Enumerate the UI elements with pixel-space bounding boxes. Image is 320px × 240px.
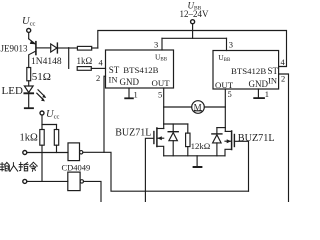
MOSFET Q2 BUZ71L (left) bbox=[145, 128, 163, 202]
wire U2 pin3 to bus bbox=[226, 38, 228, 50]
svg-text:LED: LED bbox=[2, 85, 23, 97]
ground (LED cathode) bbox=[25, 107, 33, 109]
wire U1 pin2 IN from inverter bbox=[104, 76, 106, 152]
wire left drain node to 12k bbox=[164, 123, 188, 125]
ground (source bus) bbox=[194, 156, 202, 167]
resistor R6 12k bbox=[186, 124, 190, 156]
svg-text:5: 5 bbox=[228, 89, 232, 99]
svg-text:UBB: UBB bbox=[218, 53, 231, 63]
power terminal Ucc (transistor supply) bbox=[27, 28, 31, 32]
body diode (right BUZ71L) bbox=[212, 128, 222, 156]
resistor R5 1k (right pullup) bbox=[54, 125, 58, 153]
wire ST long line to U2 pin4 bbox=[98, 31, 287, 67]
node junction after diode bbox=[68, 48, 70, 69]
wire input 1 to inverter A bbox=[27, 152, 68, 154]
inverter U3A (CD4049) bbox=[68, 143, 83, 161]
wire U1 pin5 OUT down bbox=[163, 88, 165, 129]
svg-text:1kΩ: 1kΩ bbox=[20, 132, 39, 143]
body diode (left BUZ71L) bbox=[168, 124, 178, 156]
wire U1 pin3 to bus bbox=[161, 38, 163, 50]
svg-text:GND: GND bbox=[120, 77, 140, 87]
source bus bbox=[164, 155, 225, 157]
IC U2 BTS412B body bbox=[213, 51, 279, 90]
ground U1 pin1 GND bbox=[125, 88, 133, 98]
power terminal Ubb 12-24V bbox=[191, 20, 195, 39]
wire inverter A output to U1 IN and right gate bbox=[83, 152, 249, 191]
svg-text:1N4148: 1N4148 bbox=[31, 57, 62, 67]
label input command (Chinese: shu ru zhi ling) bbox=[0, 162, 37, 171]
LED D2 bbox=[24, 86, 46, 107]
svg-text:1: 1 bbox=[134, 90, 138, 100]
resistor R3 1k (to U1 ST pin4) bbox=[77, 67, 105, 71]
supply bus Ubb bbox=[162, 37, 227, 39]
wire right drain node bbox=[217, 127, 225, 129]
transistor Q1 JE9013 (PNP) bbox=[29, 39, 51, 68]
svg-text:4: 4 bbox=[281, 57, 286, 67]
svg-text:3: 3 bbox=[229, 40, 233, 50]
wire U2 pin5 OUT down bbox=[224, 89, 226, 131]
svg-text:IN: IN bbox=[268, 76, 277, 86]
resistor R2 1k (top, to ST line of U2) bbox=[69, 46, 98, 50]
resistor R1 51 ohm bbox=[27, 68, 31, 87]
svg-text:12–24V: 12–24V bbox=[180, 9, 210, 19]
svg-text:BTS412B: BTS412B bbox=[231, 66, 266, 76]
svg-text:IN: IN bbox=[109, 74, 118, 84]
svg-text:M: M bbox=[194, 102, 202, 112]
svg-text:JE9013: JE9013 bbox=[1, 43, 29, 53]
svg-text:1kΩ: 1kΩ bbox=[77, 56, 93, 66]
diode D1 1N4148 bbox=[51, 43, 69, 53]
svg-text:OUT: OUT bbox=[152, 78, 171, 88]
svg-text:2: 2 bbox=[96, 73, 100, 83]
input terminal 2 bbox=[23, 179, 27, 183]
power terminal Ucc (CD4049 pullups) bbox=[40, 111, 44, 115]
svg-text:GND: GND bbox=[249, 79, 269, 89]
MOSFET Q3 BUZ71L (right) bbox=[225, 131, 249, 191]
svg-text:1: 1 bbox=[265, 89, 269, 99]
inverter U3B (CD4049) bbox=[68, 172, 84, 191]
svg-text:4: 4 bbox=[99, 58, 104, 68]
wire U2 pin2 IN to bottom bbox=[279, 74, 289, 202]
IC U1 BTS412B body bbox=[106, 50, 174, 88]
wire Ucc to emitter bbox=[28, 33, 30, 39]
svg-text:3: 3 bbox=[154, 40, 158, 50]
svg-text:Ucc: Ucc bbox=[22, 16, 35, 28]
svg-text:12kΩ: 12kΩ bbox=[191, 141, 211, 151]
svg-text:2: 2 bbox=[281, 74, 285, 84]
input terminal 1 bbox=[23, 151, 27, 155]
wire Ucc split bbox=[42, 115, 57, 124]
svg-text:BUZ71L: BUZ71L bbox=[115, 127, 151, 138]
svg-text:BTS412B: BTS412B bbox=[123, 65, 158, 75]
svg-text:UBB: UBB bbox=[155, 52, 168, 62]
svg-text:CD4049: CD4049 bbox=[62, 162, 91, 172]
resistor R4 1k (left pullup) bbox=[40, 125, 44, 182]
svg-text:Ucc: Ucc bbox=[46, 109, 59, 121]
motor M bbox=[164, 101, 226, 114]
svg-text:51Ω: 51Ω bbox=[32, 71, 51, 83]
wire input 2 to inverter B bbox=[27, 180, 68, 182]
ground U2 pin1 GND bbox=[254, 89, 264, 98]
svg-text:5: 5 bbox=[158, 90, 162, 100]
wire inverter B output down bbox=[84, 181, 102, 202]
svg-text:BUZ71L: BUZ71L bbox=[238, 133, 275, 144]
